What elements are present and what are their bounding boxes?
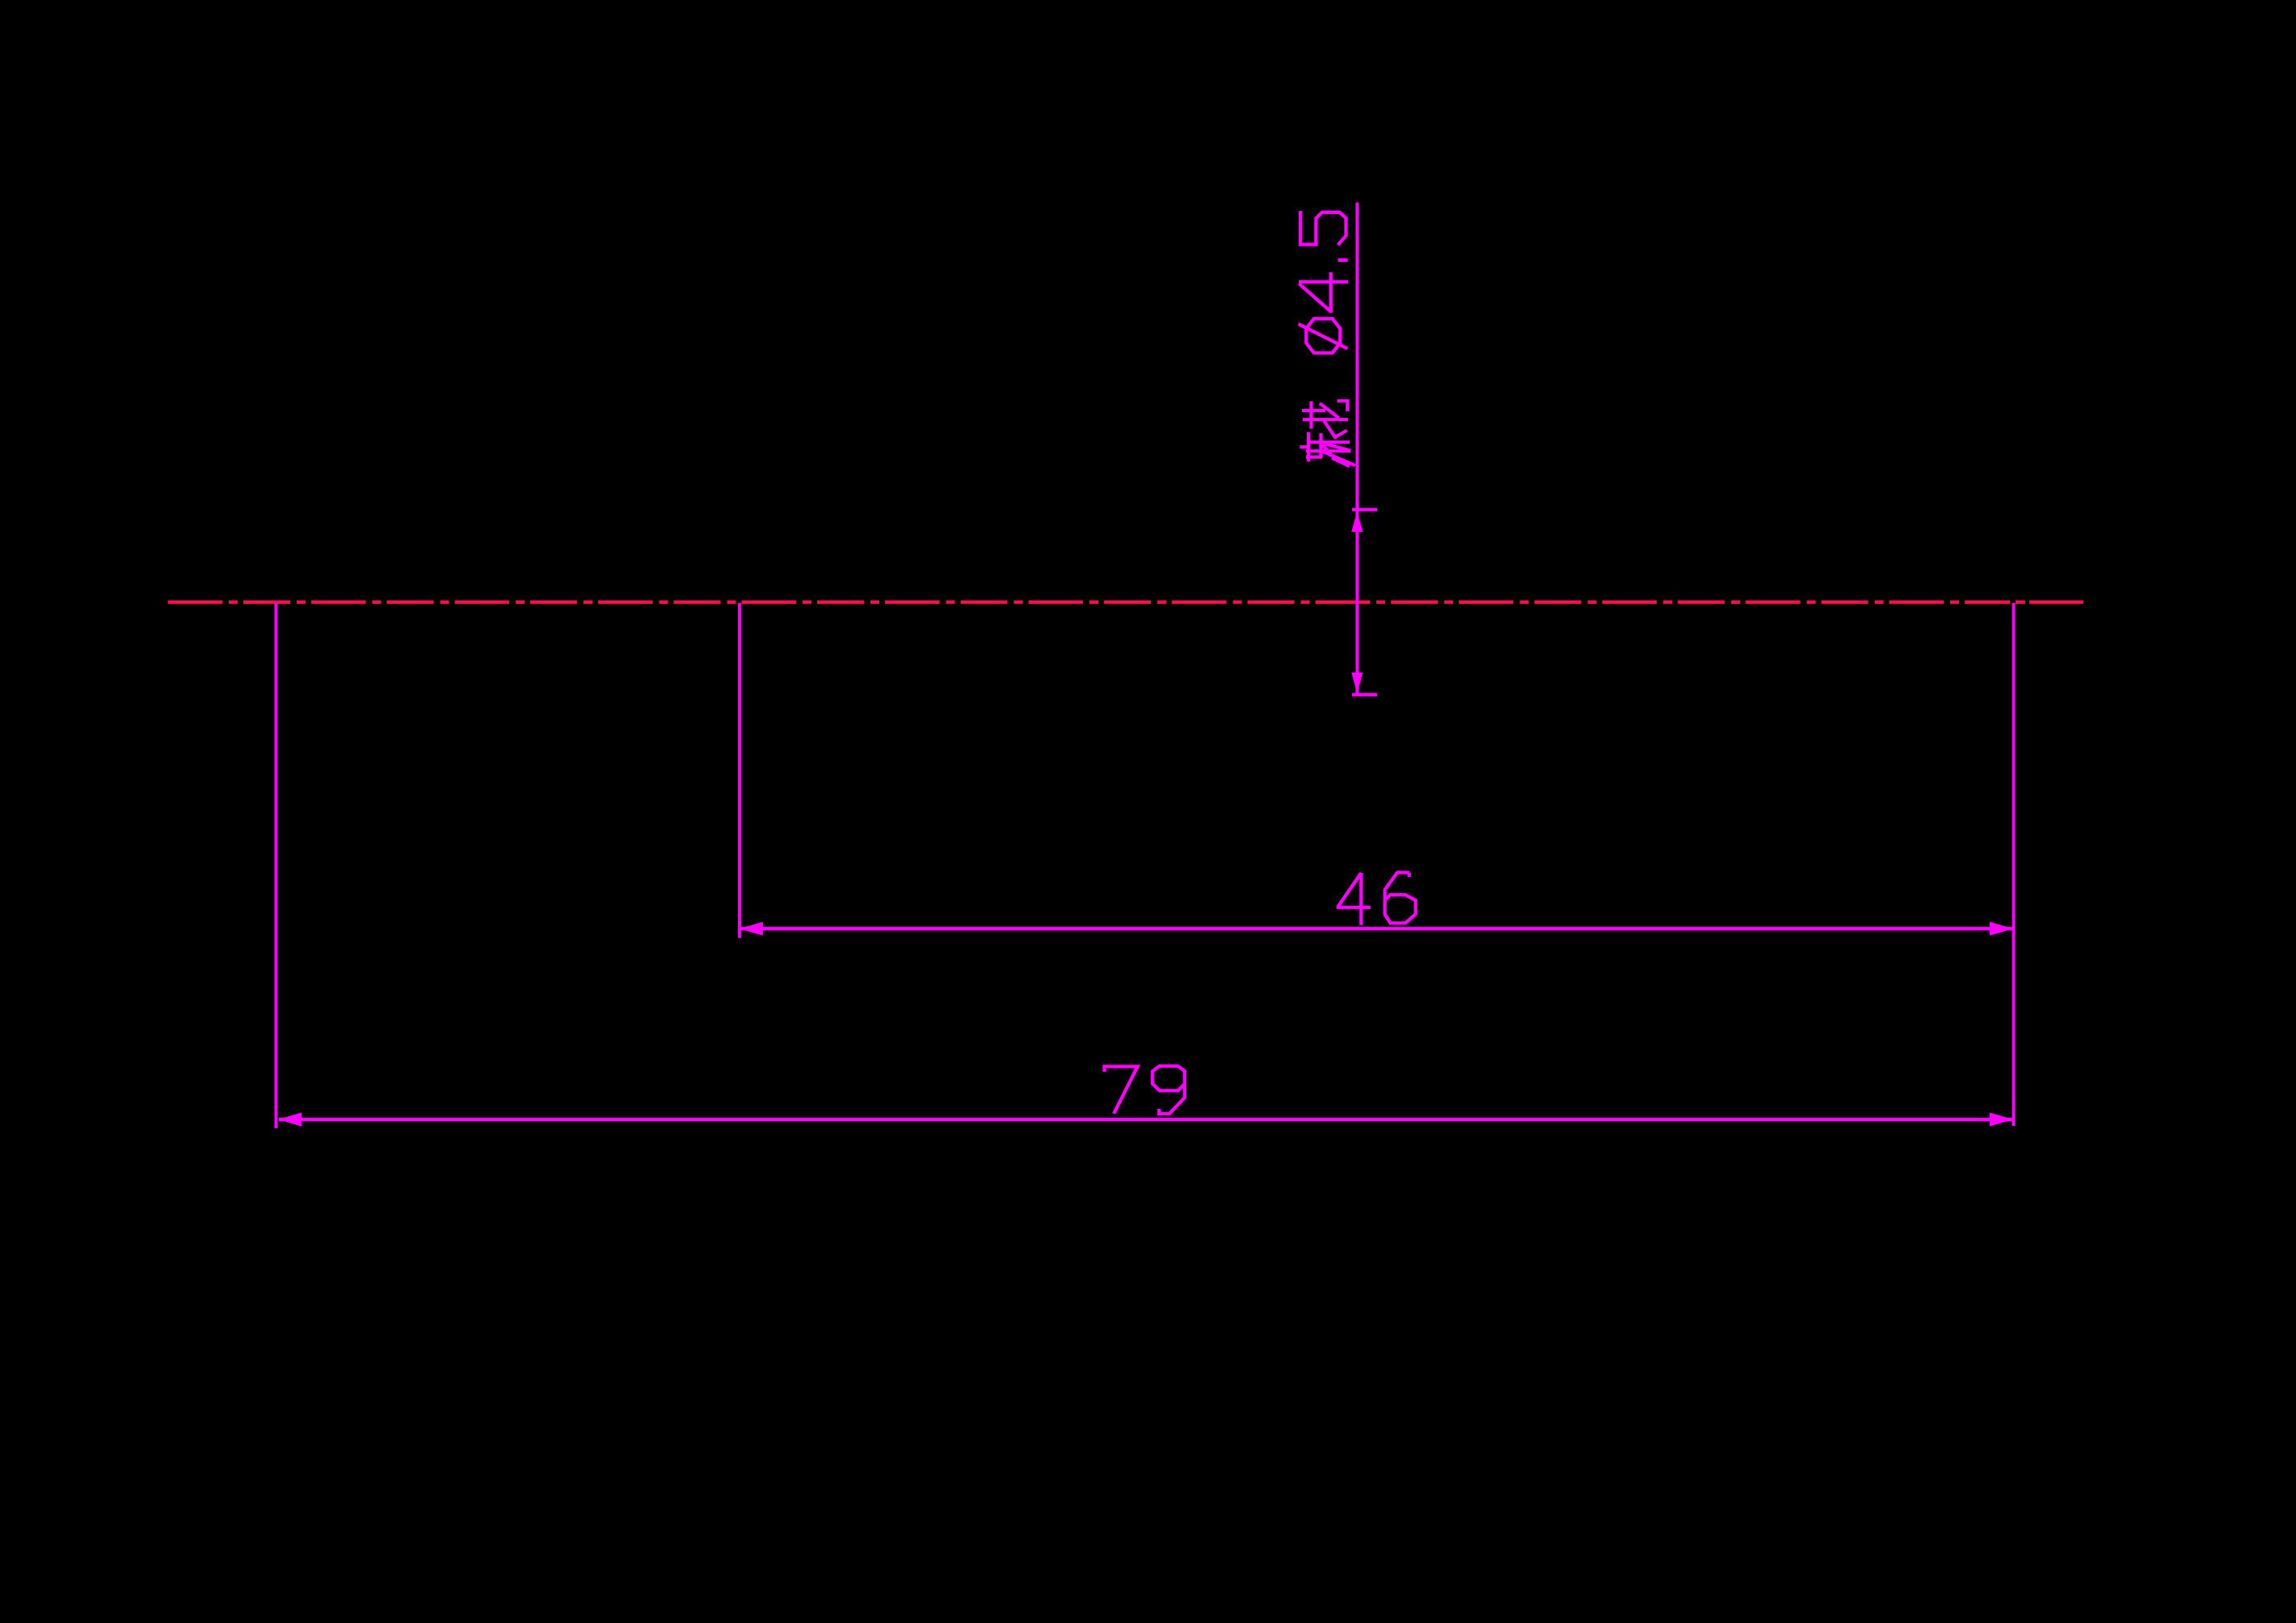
text 79: digit 9 [1152,1066,1185,1114]
centerline short dash at extension crossing [2016,601,2025,605]
vertical text: digit 4 (rotated) [1299,272,1348,313]
vertical text: hanzi ma (rotated) [1300,432,1356,467]
arrowhead up (Ø4.5 dim) [1351,512,1363,533]
extension line left (79 dim) [275,603,278,1128]
vertical text: digit 5 (rotated) [1300,211,1346,245]
dimension line 79 [279,1118,2012,1122]
vertical dimension line (Ø4.5) [1355,203,1359,694]
arrowhead right (79 dim) [1990,1113,2013,1127]
vertical text: decimal point (rotated) [1338,258,1348,262]
text 46: digit 4 [1337,873,1371,925]
extension line right (shared 46/79 dims) [2012,603,2016,1126]
arrowhead left (46 dim) [739,922,764,936]
centerline end long dash [2029,601,2083,605]
extension line left (46 dim) [738,603,741,938]
arrowhead right (46 dim) [1990,922,2013,936]
tick top (Ø4.5 dim) [1352,508,1377,511]
tick bottom (Ø4.5 dim) [1352,693,1377,696]
arrowhead left (79 dim) [278,1113,301,1127]
vertical text: diameter symbol (rotated) [1299,318,1348,352]
dimension line 46 [740,927,2012,931]
vertical text: hanzi hua (rotated) [1302,401,1348,437]
text 46: digit 6 [1385,873,1416,924]
centerline (red dash-dot axis) [168,601,2010,605]
arrowhead down (Ø4.5 dim) [1351,672,1363,693]
text 79: digit 7 [1105,1067,1138,1114]
